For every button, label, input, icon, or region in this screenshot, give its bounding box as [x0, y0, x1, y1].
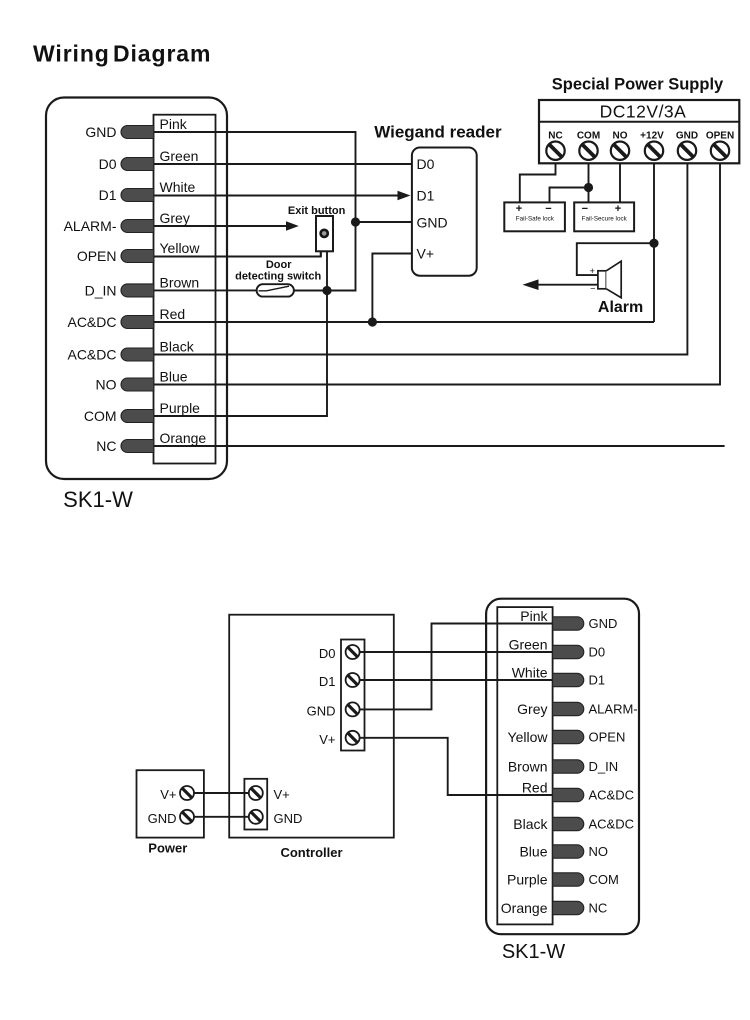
wire power V+ to controller [194, 792, 249, 794]
pin connector ALARM- (bottom SK1-W) [553, 702, 584, 715]
wire Red (AC&DC) to +12V [154, 321, 655, 323]
wire White (D1) to reader D1 [154, 195, 399, 197]
exit button right leg to junction [326, 251, 328, 291]
svg-text:Yellow: Yellow [160, 240, 201, 256]
svg-text:+: + [516, 203, 522, 215]
pin connector D1 (top SK1-W) [121, 189, 154, 202]
door detecting switch lever [259, 286, 290, 291]
wiegand reader body [412, 148, 477, 276]
svg-text:COM: COM [589, 872, 619, 887]
junction node exit button / door switch / COM [322, 286, 331, 295]
wire NC to Fail-Safe lock + [520, 163, 556, 202]
wire Blue (NO) to power supply OPEN [154, 163, 721, 384]
terminal screw +12V (power supply) [645, 142, 663, 160]
svg-text:Controller: Controller [280, 845, 342, 860]
svg-text:Alarm: Alarm [598, 299, 643, 316]
junction node COM [584, 183, 593, 192]
controller terminal screw D1 [346, 673, 360, 687]
svg-text:Brown: Brown [160, 274, 200, 290]
svg-text:Brown: Brown [508, 759, 548, 775]
wire controller GND to bottom SK1-W [360, 624, 553, 710]
pin connector NO (top SK1-W) [121, 378, 154, 391]
pin connector NC (top SK1-W) [121, 440, 154, 453]
svg-text:Power: Power [148, 841, 187, 856]
wire Orange (NC) [154, 445, 725, 447]
power supply divider [539, 121, 739, 123]
controller terminal screw D0 [346, 645, 360, 659]
svg-text:Diagram: Diagram [113, 41, 211, 67]
pin connector NC (bottom SK1-W) [553, 901, 584, 914]
pin connector COM (top SK1-W) [121, 410, 154, 423]
alarm speaker horn [606, 261, 621, 298]
wire Purple (COM) to switch junction [154, 291, 328, 417]
svg-text:NC: NC [548, 130, 562, 141]
svg-text:Blue: Blue [160, 369, 188, 385]
pin connector AC&DC (top SK1-W) [121, 348, 154, 361]
svg-text:COM: COM [577, 130, 600, 141]
svg-text:Pink: Pink [520, 608, 548, 624]
wire reader GND stub [356, 221, 412, 223]
svg-text:+12V: +12V [640, 130, 664, 141]
alarm speaker driver [598, 271, 606, 289]
svg-text:SK1-W: SK1-W [63, 487, 133, 512]
pin connector GND (bottom SK1-W) [553, 617, 584, 630]
svg-text:OPEN: OPEN [706, 130, 734, 141]
svg-text:GND: GND [307, 703, 336, 718]
wire controller V+ to bottom SK1-W AC&DC [360, 738, 553, 795]
wire NO to Fail-Secure lock + [619, 163, 621, 202]
pin connector AC&DC (bottom SK1-W) [553, 817, 584, 830]
svg-text:D0: D0 [589, 645, 606, 660]
pin connector GND (top SK1-W) [121, 126, 154, 139]
wire alarm - continuation [538, 284, 598, 286]
svg-text:SK1-W: SK1-W [502, 941, 565, 963]
svg-text:GND: GND [85, 124, 116, 140]
pin connector D_IN (bottom SK1-W) [553, 760, 584, 773]
svg-text:Fail-Safe lock: Fail-Safe lock [516, 215, 555, 222]
svg-text:−: − [545, 203, 551, 215]
svg-text:Door: Door [266, 259, 292, 271]
wire controller D1 to bottom SK1-W [360, 679, 553, 681]
svg-text:GND: GND [417, 215, 448, 231]
svg-text:D_IN: D_IN [85, 282, 117, 298]
svg-text:ALARM-: ALARM- [64, 218, 117, 234]
svg-text:Red: Red [522, 780, 548, 796]
svg-text:Orange: Orange [160, 430, 207, 446]
svg-text:AC&DC: AC&DC [67, 314, 116, 330]
svg-text:D0: D0 [417, 156, 435, 172]
wire COM branch to Fail-Safe lock - [550, 188, 589, 203]
terminal screw COM (power supply) [579, 142, 597, 160]
pin connector D1 (bottom SK1-W) [553, 673, 584, 686]
svg-text:D1: D1 [417, 188, 435, 204]
power supply body [539, 100, 739, 163]
svg-text:Green: Green [509, 637, 548, 653]
wire power GND to controller [194, 816, 249, 818]
svg-text:NO: NO [613, 130, 628, 141]
svg-text:White: White [512, 665, 548, 681]
wire reader V+ to Red wire [372, 254, 412, 323]
svg-text:OPEN: OPEN [77, 248, 117, 264]
controller power screw GND [249, 810, 263, 824]
svg-text:V+: V+ [417, 246, 435, 262]
svg-text:OPEN: OPEN [589, 730, 626, 745]
svg-text:Red: Red [160, 306, 186, 322]
exit button left leg [320, 251, 322, 257]
svg-text:Black: Black [160, 339, 195, 355]
svg-text:Wiegand reader: Wiegand reader [374, 123, 502, 142]
wire alarm + to +12V [577, 243, 654, 275]
svg-text:AC&DC: AC&DC [589, 788, 635, 803]
svg-text:AC&DC: AC&DC [589, 817, 635, 832]
exit button actuator [321, 230, 328, 237]
pin connector COM (bottom SK1-W) [553, 873, 584, 886]
svg-text:Green: Green [160, 148, 199, 164]
controller terminal strip [341, 640, 365, 751]
svg-text:Orange: Orange [501, 900, 548, 916]
wire Green (D0) to reader D0 [154, 163, 412, 165]
wire Black (AC&DC) to power supply GND [154, 163, 688, 354]
svg-text:D1: D1 [589, 673, 606, 688]
svg-text:GND: GND [589, 616, 618, 631]
arrowhead into reader D1 [398, 191, 411, 200]
wire controller D0 to bottom SK1-W [360, 651, 553, 653]
svg-text:Fail-Secure lock: Fail-Secure lock [582, 215, 628, 222]
junction node V+ / Red wire [368, 317, 377, 326]
power terminal screw V+ [180, 786, 194, 800]
svg-text:Grey: Grey [160, 210, 190, 226]
svg-text:−: − [582, 203, 588, 215]
controller terminal screw V+ [346, 731, 360, 745]
svg-text:Grey: Grey [517, 701, 547, 717]
svg-text:Special Power Supply: Special Power Supply [552, 76, 724, 94]
svg-text:V+: V+ [319, 732, 335, 747]
arrowhead on ALARM- wire [286, 221, 299, 230]
wire Brown (D_IN) to door detecting switch [154, 289, 257, 291]
terminal screw NO (power supply) [611, 142, 629, 160]
svg-text:D0: D0 [99, 156, 117, 172]
svg-text:V+: V+ [160, 787, 176, 802]
pin connector NO (bottom SK1-W) [553, 845, 584, 858]
pin connector OPEN (top SK1-W) [121, 250, 154, 263]
device SK1-W (bottom) wire-harness box [497, 607, 552, 924]
device SK1-W (top) outer body [46, 98, 227, 480]
svg-text:ALARM-: ALARM- [589, 702, 638, 717]
wire COM down to Fail-Secure lock - [588, 163, 590, 202]
exit button body [316, 216, 333, 251]
terminal screw OPEN (power supply) [711, 142, 729, 160]
terminal screw NC (power supply) [546, 142, 564, 160]
svg-text:detecting switch: detecting switch [235, 271, 321, 283]
pin connector ALARM- (top SK1-W) [121, 220, 154, 233]
wire Pink (GND) from top SK1-W to reader GND node [154, 132, 356, 291]
svg-text:D1: D1 [319, 674, 336, 689]
svg-text:V+: V+ [274, 787, 290, 802]
terminal screw GND (power supply) [678, 142, 696, 160]
pin connector OPEN (bottom SK1-W) [553, 730, 584, 743]
svg-text:COM: COM [84, 408, 117, 424]
fail-safe lock body [504, 202, 565, 231]
svg-text:AC&DC: AC&DC [67, 347, 116, 363]
arrowhead alarm - (to ALARM-) [523, 279, 539, 290]
wire Grey (ALARM-) toward exit button [154, 225, 287, 227]
svg-text:Wiring: Wiring [33, 41, 110, 67]
power terminal screw GND [180, 810, 194, 824]
junction node reader GND / Pink wire [351, 217, 360, 226]
pin connector D_IN (top SK1-W) [121, 284, 154, 297]
pin connector D0 (bottom SK1-W) [553, 645, 584, 658]
fail-secure lock body [574, 202, 634, 231]
svg-text:Pink: Pink [160, 116, 188, 132]
svg-text:+: + [615, 203, 621, 215]
title Wiring Diagram [33, 41, 211, 67]
power source body [137, 770, 204, 837]
controller terminal screw GND [346, 702, 360, 716]
pin connector AC&DC (top SK1-W) [121, 316, 154, 329]
svg-text:NC: NC [96, 438, 116, 454]
svg-text:Yellow: Yellow [508, 729, 549, 745]
svg-text:GND: GND [676, 130, 698, 141]
wire Yellow (OPEN) to exit button left leg [154, 251, 321, 257]
pin connector D0 (top SK1-W) [121, 158, 154, 171]
controller power screw V+ [249, 786, 263, 800]
wire +12V down to Red wire [653, 163, 655, 322]
controller power strip [244, 779, 267, 830]
svg-text:Blue: Blue [519, 844, 547, 860]
svg-text:Purple: Purple [160, 400, 201, 416]
svg-text:GND: GND [148, 811, 177, 826]
svg-text:NO: NO [96, 377, 117, 393]
device SK1-W (top) wire-harness box [154, 115, 216, 464]
svg-text:+: + [590, 266, 595, 276]
svg-text:GND: GND [274, 811, 303, 826]
controller body [229, 615, 394, 838]
junction node +12V / alarm [649, 239, 658, 248]
svg-text:NO: NO [589, 844, 609, 859]
pin connector AC&DC (bottom SK1-W) [553, 788, 584, 801]
svg-text:D0: D0 [319, 646, 336, 661]
svg-text:NC: NC [589, 901, 608, 916]
device SK1-W (bottom) outer body [486, 599, 639, 935]
svg-text:DC12V/3A: DC12V/3A [600, 102, 687, 122]
door detecting switch body [257, 284, 294, 296]
svg-text:Purple: Purple [507, 872, 548, 888]
svg-text:D1: D1 [99, 187, 117, 203]
svg-text:D_IN: D_IN [589, 759, 619, 774]
svg-text:−: − [590, 284, 595, 294]
wire from door switch to junction [294, 290, 327, 292]
svg-text:Black: Black [513, 816, 548, 832]
svg-text:White: White [160, 179, 196, 195]
